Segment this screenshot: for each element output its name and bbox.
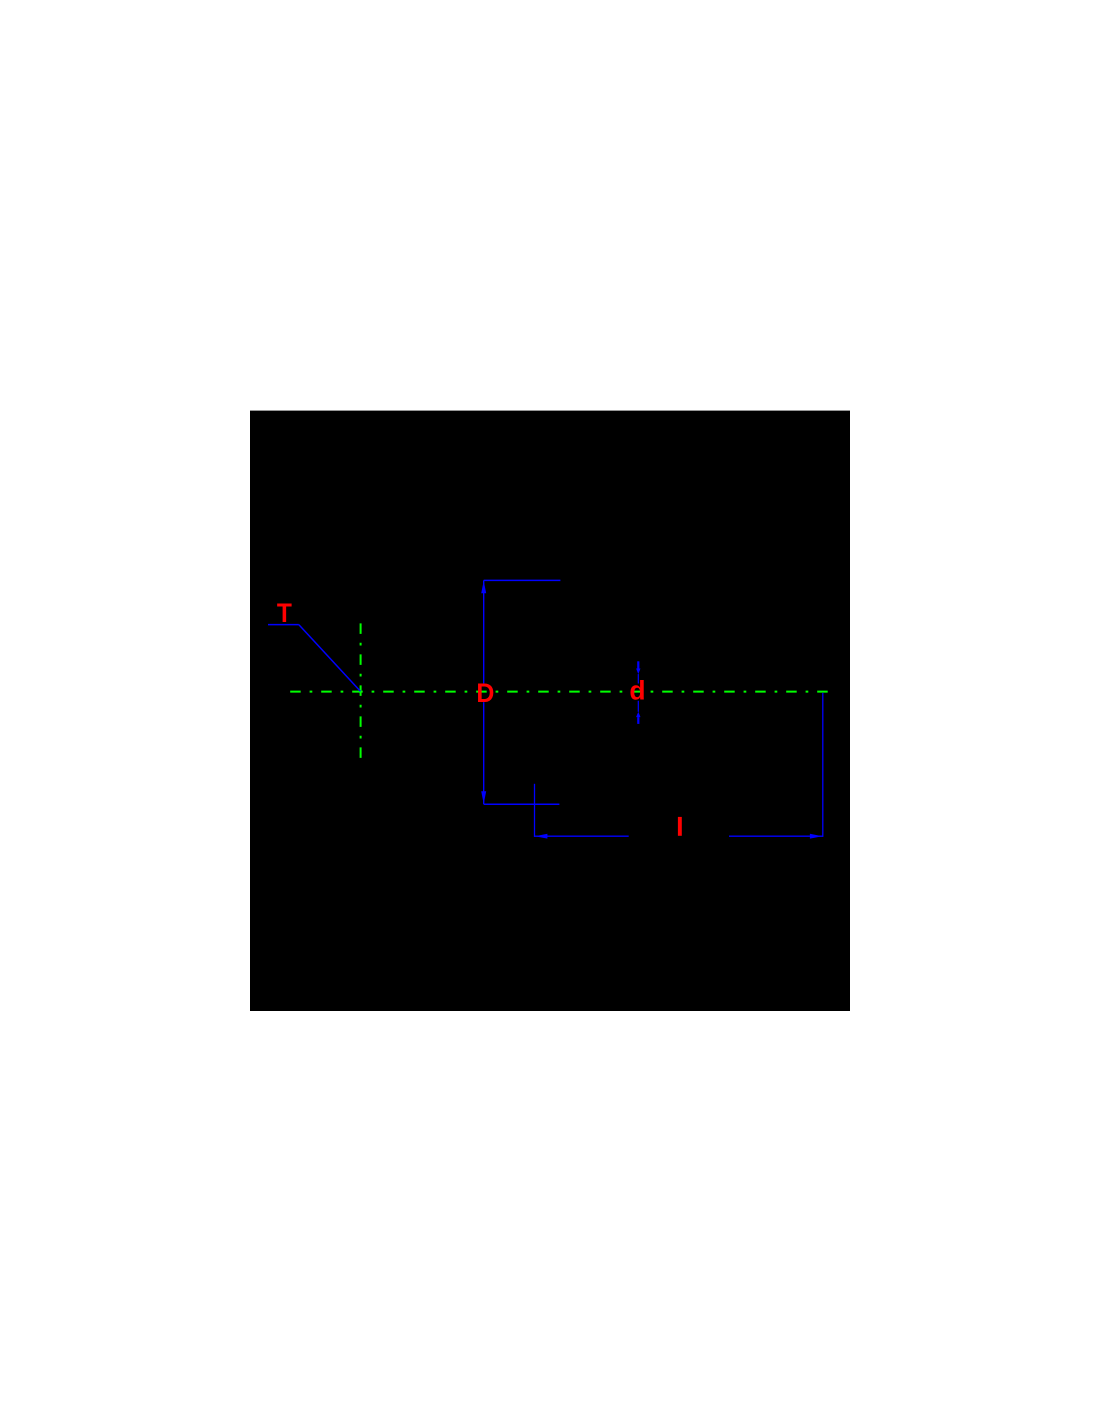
leader T horizontal segment bbox=[268, 624, 299, 626]
dimension d top tail bbox=[637, 661, 639, 668]
centerline vertical (green dash-dot) bbox=[360, 623, 362, 759]
label l (red bar) bbox=[678, 817, 682, 836]
dimension l left extension line bbox=[534, 784, 536, 837]
leader T diagonal segment bbox=[299, 625, 361, 692]
dimension d bottom arrowhead (points up) bbox=[636, 712, 640, 717]
dimension l right arrowhead (points right) bbox=[810, 834, 823, 839]
dimension D top extension (horizontal) bbox=[484, 579, 561, 581]
dimension l line left segment bbox=[535, 835, 629, 837]
dimension l left arrowhead (points left) bbox=[535, 834, 548, 839]
dimension D top arrowhead (points up) bbox=[481, 581, 486, 593]
dimension d top arrowhead (points down) bbox=[636, 669, 640, 675]
dimension d bottom tail bbox=[637, 717, 639, 724]
svg-text:T: T bbox=[277, 598, 292, 628]
dimension D vertical line upper segment bbox=[483, 580, 485, 683]
svg-text:D: D bbox=[476, 678, 494, 708]
dimension d upper line bbox=[637, 674, 639, 683]
drawing panel (black background square) bbox=[250, 411, 850, 1011]
dimension D bottom arrowhead (points down) bbox=[481, 791, 486, 803]
dimension D vertical line lower segment bbox=[483, 702, 485, 804]
dimension D bottom extension (horizontal) bbox=[484, 803, 560, 805]
svg-text:d: d bbox=[629, 676, 645, 706]
dimension l right extension line bbox=[822, 693, 824, 837]
dimension d lower line bbox=[637, 701, 639, 712]
centerline horizontal (green dash-dot) bbox=[290, 691, 828, 693]
dimension l line right segment bbox=[729, 835, 823, 837]
